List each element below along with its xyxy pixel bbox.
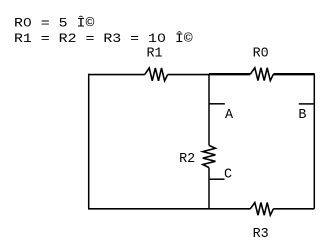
svg-text:R2: R2	[179, 152, 195, 167]
wire: middle branch lower segment	[208, 168, 210, 209]
wire: right rail (top-right corner to bottom-right corner)	[313, 73, 315, 208]
resistor R2	[179, 145, 215, 167]
svg-text:R0: R0	[253, 47, 269, 62]
node A terminal tick	[209, 104, 234, 123]
node B terminal tick	[298, 104, 314, 123]
resistor R0	[250, 47, 273, 81]
wire: middle branch upper segment	[208, 74, 210, 145]
value label: R1 = R2 = R3 = 10 Ohm	[14, 30, 193, 47]
resistor R1	[145, 47, 168, 81]
svg-text:R1 = R2 = R3 = 10 Î©: R1 = R2 = R3 = 10 Î©	[14, 30, 193, 47]
wire: top rail middle segment	[168, 74, 210, 76]
wire: bottom rail left segment	[88, 208, 250, 210]
svg-text:A: A	[225, 108, 234, 123]
wire: bottom rail right segment	[273, 208, 314, 210]
svg-text:R0 = 5 Î©: R0 = 5 Î©	[14, 14, 95, 31]
svg-text:C: C	[224, 168, 232, 183]
svg-text:R3: R3	[253, 227, 269, 242]
resistor R3	[250, 203, 273, 243]
value label: R0 = 5 Ohm	[14, 14, 95, 31]
node C terminal tick	[209, 168, 232, 183]
wire: top rail right segment to top-right corner	[273, 73, 314, 75]
wire: top rail left segment	[88, 74, 145, 76]
wire: top rail junction-to-R0 segment	[209, 73, 250, 75]
svg-text:R1: R1	[147, 47, 163, 62]
svg-text:B: B	[298, 108, 306, 123]
wire: left rail (top-left corner to bottom-left corner)	[88, 74, 90, 209]
